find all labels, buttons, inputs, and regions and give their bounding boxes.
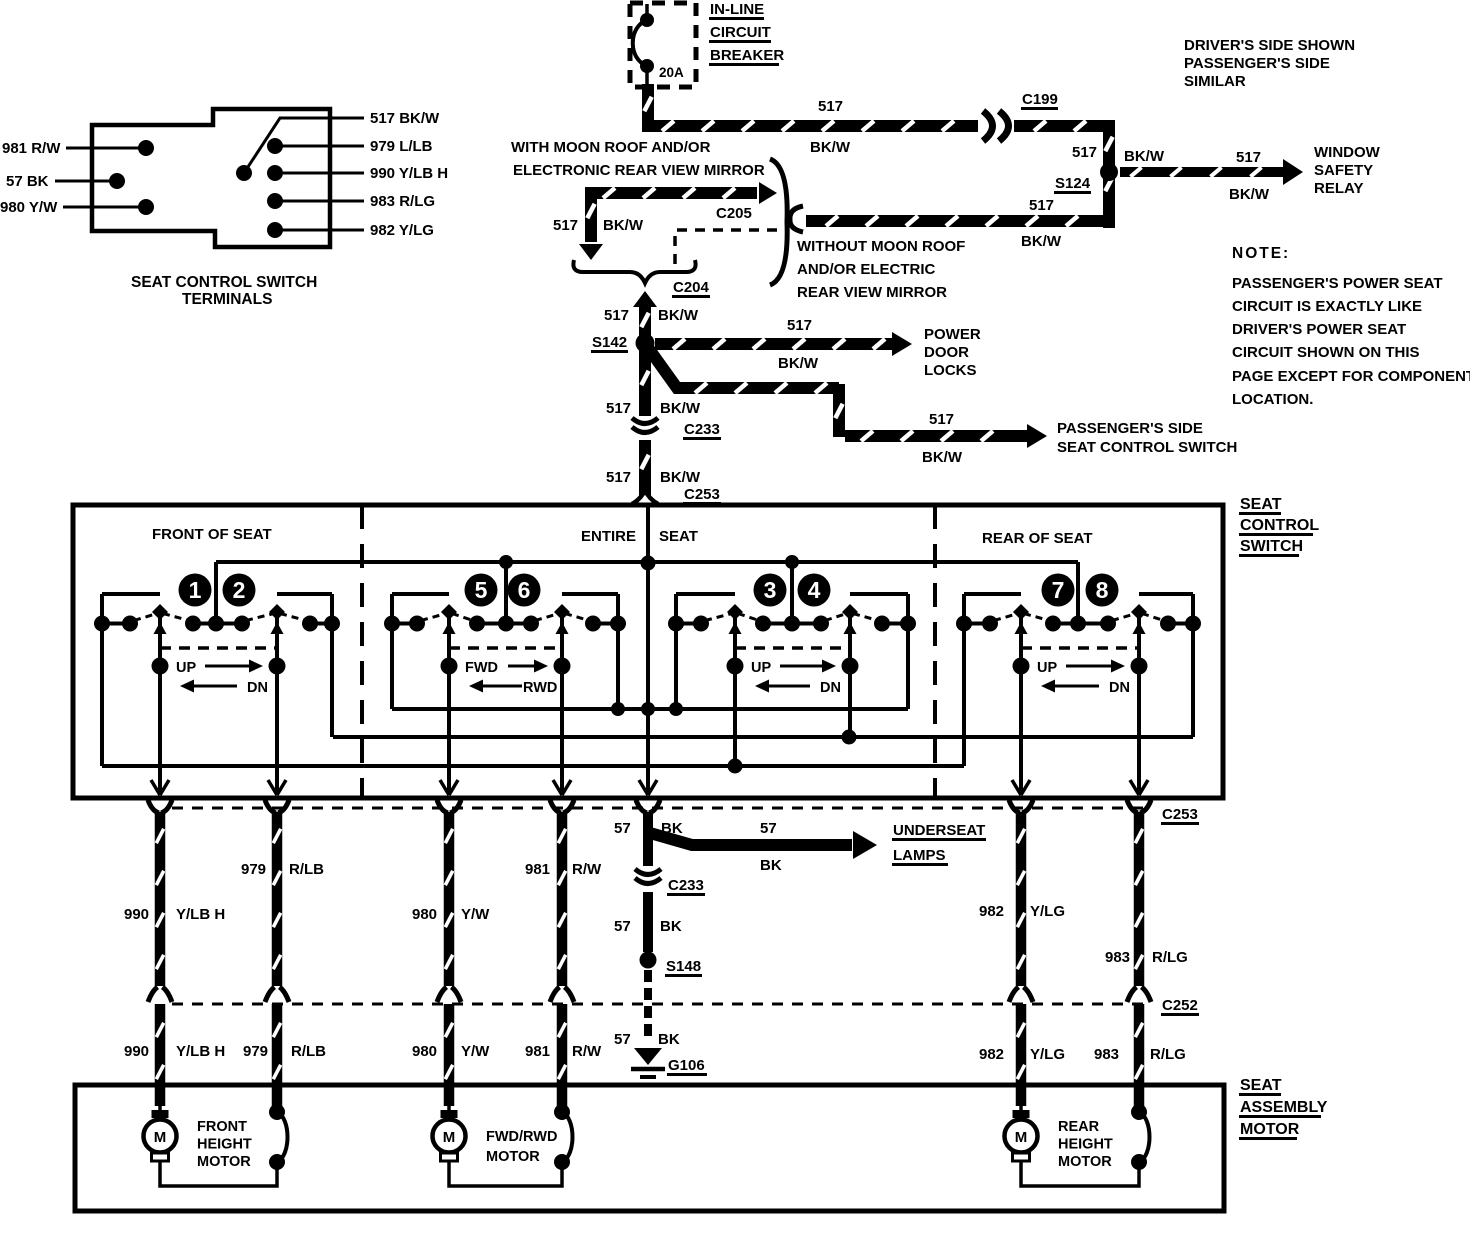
connector C253 terminal at x=648 — [636, 800, 660, 813]
motor field winding arc at x=277 — [275, 1085, 279, 1110]
wire 983 R/LG from C252 to motor — [1134, 1004, 1145, 1110]
center wire 57 BK inside box — [646, 565, 650, 793]
svg-text:SEAT CONTROL SWITCH: SEAT CONTROL SWITCH — [1057, 439, 1237, 456]
switch 5-6 pivot symbols — [441, 604, 457, 620]
brace for C205 — [770, 159, 787, 285]
svg-text:WINDOW: WINDOW — [1314, 144, 1381, 161]
svg-text:517: 517 — [787, 317, 812, 334]
terminal pin 517 BK/W with jumper — [236, 165, 252, 181]
switch 1-2 right rail — [330, 594, 334, 737]
switch 5-6 actuator dots — [441, 658, 458, 675]
svg-text:20A: 20A — [659, 65, 684, 80]
ground rail A — [392, 707, 908, 711]
svg-text:BK: BK — [660, 918, 682, 935]
svg-text:CIRCUIT: CIRCUIT — [710, 24, 771, 41]
svg-text:6: 6 — [518, 577, 531, 603]
dashed wire C205 to C204 — [675, 230, 777, 266]
motor bottom wire — [160, 1161, 277, 1186]
switch 7-8 right rail — [1191, 594, 1195, 737]
connector C253 terminal at x=449 — [437, 800, 461, 813]
connector C252 terminal — [1127, 987, 1151, 1002]
wire feed drop switch 1-2 — [214, 562, 218, 622]
svg-text:C204: C204 — [673, 279, 710, 296]
section divider dashed right — [933, 505, 937, 798]
interconnect rail B — [333, 735, 1193, 739]
svg-text:LOCKS: LOCKS — [924, 362, 977, 379]
svg-text:DN: DN — [820, 680, 841, 696]
switch 7-8 pivot 1 wire — [1019, 607, 1023, 793]
connector C233 terminal on 57 BK — [635, 869, 661, 875]
switch 3-4 contacts — [668, 616, 684, 632]
switch 5-6 contacts — [384, 616, 400, 632]
motor M at x=449 — [447, 1085, 451, 1112]
svg-text:990: 990 — [124, 906, 149, 923]
svg-text:FRONT: FRONT — [197, 1119, 247, 1135]
svg-text:982 Y/LG: 982 Y/LG — [370, 222, 434, 239]
svg-text:POWER: POWER — [924, 326, 981, 343]
switch 5-6 left rail — [390, 594, 394, 709]
svg-text:2: 2 — [233, 577, 246, 603]
svg-text:BK: BK — [760, 857, 782, 874]
svg-text:C233: C233 — [668, 877, 704, 894]
svg-text:BK/W: BK/W — [658, 307, 699, 324]
svg-text:DRIVER'S POWER SEAT: DRIVER'S POWER SEAT — [1232, 321, 1406, 338]
wire 57 BK below box — [643, 812, 653, 866]
connector C253 terminal at x=160 — [148, 800, 172, 813]
svg-text:CIRCUIT SHOWN ON THIS: CIRCUIT SHOWN ON THIS — [1232, 344, 1420, 361]
wire 981 R/W from C252 to motor — [557, 1004, 568, 1110]
motor M at x=160 — [158, 1085, 162, 1112]
svg-text:BK/W: BK/W — [778, 355, 819, 372]
switch 3-4 right rail — [906, 594, 910, 709]
svg-text:BK: BK — [658, 1031, 680, 1048]
switch 7-8 actuator dots — [1013, 658, 1030, 675]
feed rail wire from C253 entry — [646, 507, 650, 564]
switch 1-2 detent dashed link — [160, 646, 277, 650]
svg-text:Y/W: Y/W — [461, 906, 490, 923]
svg-text:FRONT OF SEAT: FRONT OF SEAT — [152, 526, 272, 543]
svg-text:WITHOUT MOON ROOF: WITHOUT MOON ROOF — [797, 238, 965, 255]
svg-text:990: 990 — [124, 1043, 149, 1060]
wire 982 Y/LG from C253 to C252 — [1016, 812, 1027, 986]
svg-text:LAMPS: LAMPS — [893, 847, 946, 864]
svg-text:C199: C199 — [1022, 91, 1058, 108]
switch 3-4 actuator dots — [727, 658, 744, 675]
connector C252 terminal — [1009, 987, 1033, 1002]
svg-text:BK/W: BK/W — [810, 139, 851, 156]
svg-text:G106: G106 — [668, 1057, 705, 1074]
svg-text:ASSEMBLY: ASSEMBLY — [1240, 1099, 1328, 1116]
svg-text:CONTROL: CONTROL — [1240, 517, 1319, 534]
connector C199 in-line symbol — [983, 111, 993, 141]
switch 3-4 detent dashed link — [735, 646, 850, 650]
svg-text:BK/W: BK/W — [603, 217, 644, 234]
svg-text:57: 57 — [760, 820, 777, 837]
svg-text:517 BK/W: 517 BK/W — [370, 110, 440, 127]
svg-text:517: 517 — [1029, 197, 1054, 214]
wire 990 Y/LB H from C252 to motor — [155, 1004, 166, 1106]
wire 980 Y/W from C252 to motor — [444, 1004, 455, 1106]
svg-text:517: 517 — [553, 217, 578, 234]
svg-text:3: 3 — [764, 577, 777, 603]
svg-text:TERMINALS: TERMINALS — [182, 291, 272, 308]
svg-text:IN-LINE: IN-LINE — [710, 1, 764, 18]
svg-text:DOOR: DOOR — [924, 344, 969, 361]
svg-text:REAR OF SEAT: REAR OF SEAT — [982, 530, 1093, 547]
svg-text:M: M — [443, 1129, 456, 1146]
svg-text:ELECTRONIC REAR VIEW MIRROR: ELECTRONIC REAR VIEW MIRROR — [513, 162, 765, 179]
svg-text:517: 517 — [1236, 149, 1261, 166]
svg-text:BK/W: BK/W — [1229, 186, 1270, 203]
svg-text:S124: S124 — [1055, 175, 1091, 192]
interconnect rail C — [102, 764, 964, 768]
svg-text:SEAT CONTROL SWITCH: SEAT CONTROL SWITCH — [131, 274, 317, 291]
switch 7-8 left rail — [962, 594, 966, 766]
svg-text:517: 517 — [606, 469, 631, 486]
svg-text:WITH MOON ROOF AND/OR: WITH MOON ROOF AND/OR — [511, 139, 711, 156]
ground G106 — [634, 1048, 662, 1065]
svg-text:980 Y/W: 980 Y/W — [0, 199, 58, 216]
svg-text:S148: S148 — [666, 958, 701, 975]
connector C252 terminal — [265, 987, 289, 1002]
svg-text:UNDERSEAT: UNDERSEAT — [893, 822, 985, 839]
terminal pin 982 Y/LG — [267, 222, 283, 238]
svg-text:PAGE EXCEPT FOR COMPONENT: PAGE EXCEPT FOR COMPONENT — [1232, 368, 1470, 385]
motor bottom wire — [449, 1161, 562, 1186]
section divider dashed left — [360, 505, 364, 798]
svg-text:HEIGHT: HEIGHT — [1058, 1137, 1113, 1153]
svg-text:979: 979 — [241, 861, 266, 878]
connector C253 terminal at x=277 — [265, 800, 289, 813]
connector C233 in-line symbol — [632, 418, 658, 424]
svg-text:RWD: RWD — [523, 680, 557, 696]
svg-text:LOCATION.: LOCATION. — [1232, 391, 1313, 408]
wire 981 R/W from C253 to C252 — [557, 812, 568, 986]
switch 1-2 left rail — [100, 594, 104, 766]
svg-text:983 R/LG: 983 R/LG — [370, 193, 435, 210]
terminal pin 983 R/LG — [267, 193, 283, 209]
motor M at x=1021 — [1019, 1085, 1023, 1112]
svg-text:979 L/LB: 979 L/LB — [370, 138, 433, 155]
motor bottom wire — [1021, 1161, 1139, 1186]
splice S148 — [640, 952, 657, 969]
switch 3-4 wiper dashes — [705, 614, 732, 621]
svg-text:MOTOR: MOTOR — [486, 1149, 540, 1165]
svg-text:SEAT: SEAT — [659, 528, 698, 545]
splice S124 — [1100, 163, 1118, 181]
terminal pin 57 BK — [109, 173, 125, 189]
svg-text:57: 57 — [614, 1031, 631, 1048]
connector C252 terminal — [148, 987, 172, 1002]
svg-text:R/W: R/W — [572, 1043, 602, 1060]
svg-text:S142: S142 — [592, 334, 627, 351]
switch 5-6 right rail — [616, 594, 620, 709]
switch 5-6 pivot 2 wire — [560, 607, 564, 793]
svg-text:BK/W: BK/W — [922, 449, 963, 466]
switch 1-2 wiper dashes — [134, 614, 157, 621]
wire 982 Y/LG from C252 to motor — [1016, 1004, 1027, 1106]
seat assembly motor box — [75, 1085, 1224, 1211]
connector C204 bracket — [573, 260, 695, 283]
switch 1-2 position circles 1 2 — [179, 574, 212, 607]
svg-text:517: 517 — [818, 98, 843, 115]
svg-text:DRIVER'S SIDE SHOWN: DRIVER'S SIDE SHOWN — [1184, 37, 1355, 54]
switch 7-8 pivot symbols — [1013, 604, 1029, 620]
splice S142 — [636, 334, 655, 353]
wire 979 R/LB from C252 to motor — [272, 1004, 283, 1110]
svg-text:SEAT: SEAT — [1240, 1077, 1282, 1094]
connector C253 terminal at x=1021 — [1009, 800, 1033, 813]
wire 980 Y/W from C253 to C252 — [444, 812, 455, 986]
svg-text:Y/W: Y/W — [461, 1043, 490, 1060]
switch 7-8 pivot 2 wire — [1137, 607, 1141, 793]
svg-text:C252: C252 — [1162, 997, 1198, 1014]
circuit breaker element — [645, 4, 649, 16]
svg-text:UP: UP — [1037, 660, 1057, 676]
svg-text:983: 983 — [1105, 949, 1130, 966]
svg-text:C205: C205 — [716, 205, 752, 222]
switch 1-2 pivot symbols — [152, 604, 168, 620]
svg-text:Y/LG: Y/LG — [1030, 903, 1065, 920]
connector C253 terminal at x=562 — [550, 800, 574, 813]
connector C253 terminal at x=1139 — [1127, 800, 1151, 813]
svg-text:979: 979 — [243, 1043, 268, 1060]
terminal pin 980 Y/W — [138, 199, 154, 215]
terminal pin 981 R/W — [138, 140, 154, 156]
wire 517 BK/W from breaker to C199 — [648, 84, 978, 126]
svg-text:M: M — [1015, 1129, 1028, 1146]
wire 517 BK/W to power door locks — [655, 338, 892, 350]
switch 5-6 position circles 5 6 — [465, 574, 498, 607]
svg-text:DN: DN — [1109, 680, 1130, 696]
svg-text:AND/OR ELECTRIC: AND/OR ELECTRIC — [797, 261, 936, 278]
wire 990 Y/LB H from C253 to C252 — [155, 812, 166, 986]
svg-text:R/LG: R/LG — [1150, 1046, 1186, 1063]
wire feed drop switch 5-6 — [504, 562, 508, 622]
svg-text:R/LB: R/LB — [291, 1043, 326, 1060]
switch 3-4 pivot 1 wire — [733, 607, 737, 766]
circuit breaker 20A dashed box — [630, 3, 696, 87]
motor field winding arc at x=562 — [560, 1085, 564, 1110]
svg-text:8: 8 — [1096, 577, 1109, 603]
switch 5-6 wiper dashes — [421, 614, 446, 621]
switch 3-4 pivot symbols — [727, 604, 743, 620]
svg-text:SAFETY: SAFETY — [1314, 162, 1373, 179]
svg-text:BK/W: BK/W — [1124, 148, 1165, 165]
svg-text:982: 982 — [979, 1046, 1004, 1063]
svg-text:UP: UP — [176, 660, 196, 676]
switch 7-8 position circles 7 8 — [1042, 574, 1075, 607]
svg-text:PASSENGER'S SIDE: PASSENGER'S SIDE — [1057, 420, 1203, 437]
svg-text:981 R/W: 981 R/W — [2, 140, 61, 157]
svg-text:ENTIRE: ENTIRE — [581, 528, 636, 545]
svg-text:983: 983 — [1094, 1046, 1119, 1063]
svg-text:Y/LB H: Y/LB H — [176, 1043, 225, 1060]
svg-text:MOTOR: MOTOR — [197, 1154, 251, 1170]
wire feed drop switch 3-4 — [790, 562, 794, 622]
wire 517 BK/W to window safety relay — [1120, 167, 1284, 177]
svg-text:MOTOR: MOTOR — [1058, 1154, 1112, 1170]
svg-text:PASSENGER'S SIDE: PASSENGER'S SIDE — [1184, 55, 1330, 72]
switch 1-2 actuator dots — [152, 658, 169, 675]
svg-text:981: 981 — [525, 1043, 550, 1060]
svg-text:MOTOR: MOTOR — [1240, 1121, 1300, 1138]
svg-text:REAR VIEW MIRROR: REAR VIEW MIRROR — [797, 284, 947, 301]
wire 517 BK/W to passenger seat switch — [649, 349, 839, 388]
wire 517 BK/W without-moonroof to S124 — [806, 215, 1103, 227]
svg-text:C253: C253 — [684, 486, 720, 503]
wire feed drop switch 7-8 — [1076, 562, 1080, 625]
svg-text:R/LG: R/LG — [1152, 949, 1188, 966]
svg-text:C233: C233 — [684, 421, 720, 438]
svg-text:981: 981 — [525, 861, 550, 878]
wire 517 BK/W from C204 to S142 — [639, 306, 651, 343]
svg-text:5: 5 — [475, 577, 488, 603]
svg-text:UP: UP — [751, 660, 771, 676]
wire 517 BK/W S142 to C233 — [639, 350, 651, 416]
wire 983 R/LG from C253 to C252 — [1134, 812, 1145, 986]
switch 3-4 position circles 3 4 — [754, 574, 787, 607]
svg-text:R/W: R/W — [572, 861, 602, 878]
svg-text:SWITCH: SWITCH — [1240, 538, 1303, 555]
switch feed rail — [216, 560, 1078, 564]
connector C253 dashed row — [172, 807, 1150, 810]
svg-text:RELAY: RELAY — [1314, 180, 1363, 197]
terminal pin 990 Y/LB H — [267, 165, 283, 181]
svg-text:SEAT: SEAT — [1240, 496, 1282, 513]
seat control switch box — [73, 505, 1223, 798]
connector C205 half on without wire — [790, 206, 803, 232]
svg-text:REAR: REAR — [1058, 1119, 1100, 1135]
svg-text:BK/W: BK/W — [660, 400, 701, 417]
svg-text:57 BK: 57 BK — [6, 173, 49, 190]
svg-text:980: 980 — [412, 1043, 437, 1060]
svg-text:BREAKER: BREAKER — [710, 47, 784, 64]
connector: seat control switch terminals outline — [92, 109, 330, 247]
switch 7-8 wiper dashes — [994, 614, 1018, 621]
wire 57 BK C233 to S148 — [643, 892, 653, 952]
svg-text:57: 57 — [614, 820, 631, 837]
svg-text:517: 517 — [604, 307, 629, 324]
svg-text:BK/W: BK/W — [660, 469, 701, 486]
svg-text:980: 980 — [412, 906, 437, 923]
svg-text:DN: DN — [247, 680, 268, 696]
switch 7-8 detent dashed link — [1021, 646, 1139, 650]
svg-text:982: 982 — [979, 903, 1004, 920]
svg-text:HEIGHT: HEIGHT — [197, 1137, 252, 1153]
wire 57 BK S148 to G106 dashed — [644, 970, 652, 982]
svg-text:FWD: FWD — [465, 660, 498, 676]
svg-text:57: 57 — [614, 918, 631, 935]
switch 1-2 pivot 1 wire — [158, 607, 162, 793]
switch 3-4 pivot 2 wire — [848, 607, 852, 737]
switch 7-8 contacts — [956, 616, 972, 632]
terminal pin 979 L/LB — [267, 138, 283, 154]
svg-text:FWD/RWD: FWD/RWD — [486, 1129, 557, 1145]
svg-text:M: M — [154, 1129, 167, 1146]
svg-text:CIRCUIT IS EXACTLY LIKE: CIRCUIT IS EXACTLY LIKE — [1232, 298, 1422, 315]
switch 3-4 left rail — [674, 594, 678, 709]
svg-text:4: 4 — [808, 577, 821, 603]
wire 517 BK/W from C199 to S124 — [1014, 120, 1109, 132]
connector C252 terminal — [550, 987, 574, 1002]
svg-text:1: 1 — [189, 577, 202, 603]
underseat lamps branch — [650, 833, 852, 845]
wire 517 BK/W with-moonroof branch — [591, 193, 757, 242]
svg-text:SIMILAR: SIMILAR — [1184, 73, 1246, 90]
svg-text:517: 517 — [606, 400, 631, 417]
wire 979 R/LB from C253 to C252 — [272, 812, 283, 986]
svg-text:7: 7 — [1052, 577, 1065, 603]
connector C252 terminal — [437, 987, 461, 1002]
connector C252 dashed row — [172, 1003, 1150, 1006]
svg-text:990 Y/LB H: 990 Y/LB H — [370, 165, 448, 182]
wire 517 BK/W C233 to C253 — [639, 440, 651, 495]
svg-text:PASSENGER'S POWER SEAT: PASSENGER'S POWER SEAT — [1232, 275, 1443, 292]
svg-text:Y/LG: Y/LG — [1030, 1046, 1065, 1063]
switch 1-2 pivot 2 wire — [275, 607, 279, 793]
svg-text:NOTE:: NOTE: — [1232, 245, 1290, 262]
switch 5-6 detent dashed link — [449, 646, 562, 650]
switch 1-2 contacts — [94, 616, 110, 632]
svg-text:517: 517 — [929, 411, 954, 428]
svg-text:BK/W: BK/W — [1021, 233, 1062, 250]
switch 5-6 pivot 1 wire — [447, 607, 451, 793]
svg-text:Y/LB H: Y/LB H — [176, 906, 225, 923]
svg-text:C253: C253 — [1162, 806, 1198, 823]
svg-text:R/LB: R/LB — [289, 861, 324, 878]
motor field winding arc at x=1139 — [1137, 1085, 1141, 1110]
svg-text:517: 517 — [1072, 144, 1097, 161]
